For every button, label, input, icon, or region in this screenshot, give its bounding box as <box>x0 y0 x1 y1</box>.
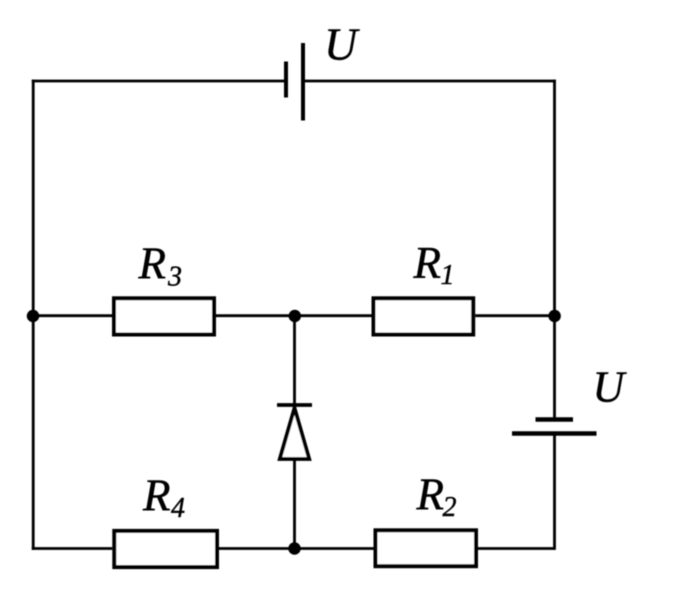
svg-text:1: 1 <box>441 260 455 291</box>
svg-text:R: R <box>413 238 442 288</box>
wire top-right segment (battery U to top-right corner) <box>303 81 555 82</box>
svg-text:2: 2 <box>443 492 457 523</box>
wire diode branch upper (node C down to diode cathode) <box>293 316 296 405</box>
wire right rail middle (node B down to battery U2) <box>553 316 556 420</box>
wire left rail (top-left corner down to bottom-left corner) <box>32 80 35 550</box>
node D (bottom junction dot) <box>288 542 301 555</box>
wire top-left segment (top-left corner to battery U) <box>33 81 286 82</box>
wire middle-left (node A to resistor R3) <box>33 314 112 317</box>
resistor R3 <box>114 298 214 334</box>
battery U1 (top) short negative plate <box>284 62 288 98</box>
wire bottom-left (bottom-left corner to resistor R4) <box>33 547 112 548</box>
node C (center junction dot) <box>289 310 302 323</box>
node A (left junction dot) <box>27 310 40 323</box>
battery U1 (top) long positive plate <box>301 43 305 121</box>
wire middle-center (R3 to node C) <box>216 314 372 317</box>
resistor R2 <box>376 530 477 566</box>
resistor R4 <box>114 531 217 567</box>
svg-text:4: 4 <box>171 493 185 524</box>
svg-text:R: R <box>416 470 445 520</box>
svg-text:U: U <box>593 363 628 412</box>
wire right rail upper (top-right corner down to node B) <box>553 80 556 316</box>
wire diode branch lower (diode anode down to node D) <box>293 459 296 550</box>
diode D1 triangle (anode, pointing up) <box>280 408 309 459</box>
diode D1 cathode bar <box>277 403 312 407</box>
svg-text:R: R <box>138 239 167 289</box>
svg-text:U: U <box>324 19 360 70</box>
wire right rail lower (battery U2 down to bottom-right corner) <box>553 434 554 549</box>
wire bottom-right (R2 to bottom-right corner) <box>478 547 555 550</box>
resistor R1 <box>374 298 474 334</box>
svg-text:3: 3 <box>167 262 182 293</box>
battery U2 (right) short negative plate <box>536 417 574 422</box>
wire bottom-center (R4 to node D) <box>219 547 374 550</box>
node B (right junction dot) <box>548 310 561 323</box>
svg-text:R: R <box>142 470 171 520</box>
battery U2 (right) long positive plate <box>512 431 597 436</box>
wire middle-right (R1 to node B) <box>475 314 554 317</box>
